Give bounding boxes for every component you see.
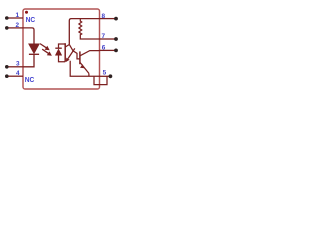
wire pin2 to LED anode xyxy=(23,28,34,44)
pin 2 dot xyxy=(5,26,9,30)
svg-text:2: 2 xyxy=(15,22,19,29)
Q2 emitter wire to pin5 xyxy=(88,73,90,76)
GND return loop below pin 5 xyxy=(94,76,107,84)
pin 7 wire xyxy=(100,38,115,40)
svg-text:5: 5 xyxy=(103,70,107,77)
transistor Q1 base bar xyxy=(64,43,66,62)
resistor R1 from pin8 wire down to pin7 wire xyxy=(79,19,100,39)
pin 7 dot xyxy=(114,37,118,41)
pin 5 wire xyxy=(100,75,109,77)
photodiode cathode bar xyxy=(55,47,62,49)
pin 4 dot xyxy=(5,74,9,78)
svg-text:6: 6 xyxy=(102,45,106,52)
pin 6 dot xyxy=(114,49,118,53)
pin 3 wire xyxy=(7,66,23,68)
svg-text:8: 8 xyxy=(101,13,105,20)
pin 8 wire xyxy=(100,18,115,20)
emitter arrow into Q1 base junction xyxy=(66,48,75,62)
pin 1 dot xyxy=(5,16,9,20)
pin 6 wire xyxy=(100,49,115,51)
transistor Q2 base bar xyxy=(79,51,81,64)
svg-text:NC: NC xyxy=(25,77,35,84)
pin 2 wire xyxy=(7,27,23,29)
light arrow 2 xyxy=(42,49,52,56)
LED D1 anode-cathode triangle xyxy=(29,44,40,54)
Z-path from rail to Q2 base xyxy=(69,44,80,59)
photodiode anode wire to Q1 base bottom xyxy=(59,55,66,61)
photodiode triangle (pointing up) xyxy=(55,49,62,55)
pin 4 wire xyxy=(7,75,23,77)
red dot marker xyxy=(25,11,28,14)
svg-text:1: 1 xyxy=(15,12,19,19)
Q2 emitter with arrow xyxy=(80,63,89,74)
Q1 collector diagonal xyxy=(66,45,70,47)
LED cathode bar xyxy=(29,53,39,55)
package body U1 xyxy=(23,9,100,89)
svg-text:NC: NC xyxy=(26,17,36,24)
VCC rail from pin8 down xyxy=(69,19,99,45)
svg-text:4: 4 xyxy=(16,70,20,77)
pin 1 wire xyxy=(7,17,23,19)
GND wire from below Q1 to pin5 xyxy=(70,61,99,76)
Q2 collector diagonal to pin6 xyxy=(80,51,99,56)
light arrow 1 xyxy=(40,44,50,51)
pin 3 dot xyxy=(5,65,9,69)
photodiode D2 top wire to Q1 base top xyxy=(59,44,66,48)
svg-text:3: 3 xyxy=(16,61,20,68)
svg-text:7: 7 xyxy=(101,33,105,40)
pin 5 dot xyxy=(109,74,113,78)
pin 8 dot xyxy=(114,17,118,21)
wire LED cathode to pin3 xyxy=(23,54,34,67)
